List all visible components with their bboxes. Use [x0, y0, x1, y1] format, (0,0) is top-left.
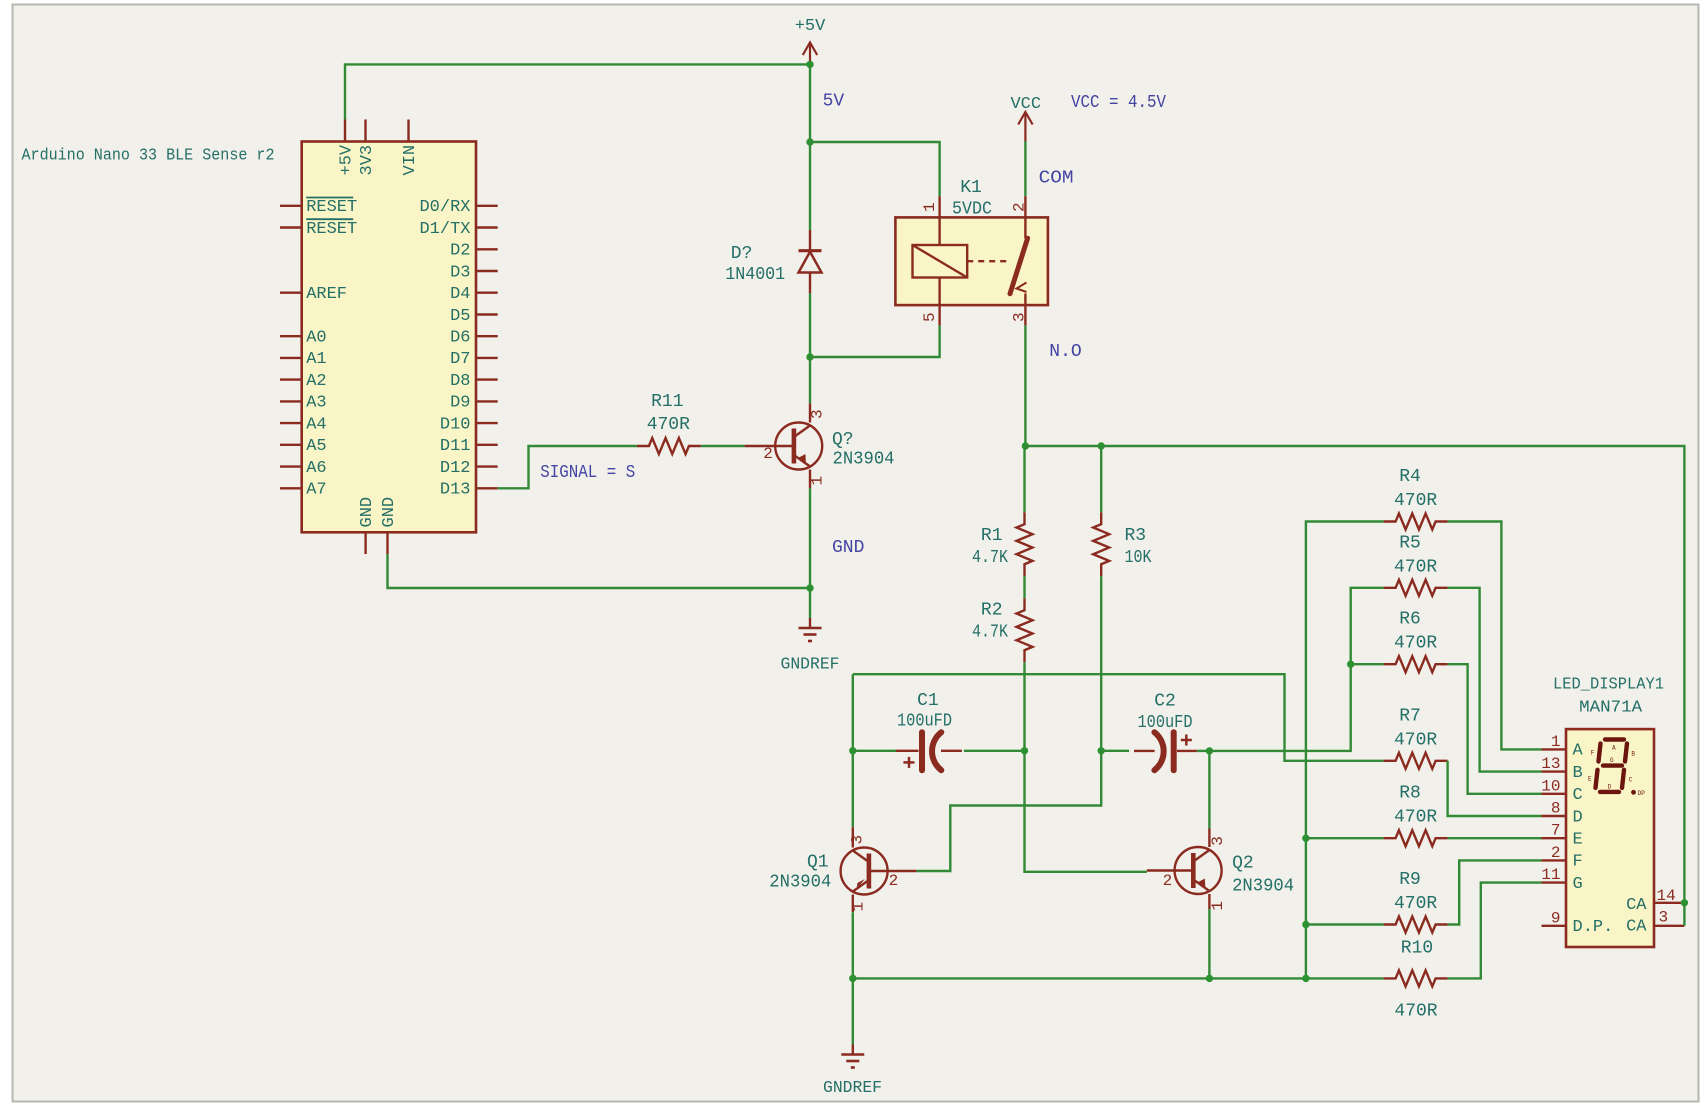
svg-text:GND: GND: [380, 497, 399, 528]
svg-text:COM: COM: [1039, 169, 1074, 189]
svg-text:470R: 470R: [1394, 634, 1437, 654]
svg-text:MAN71A: MAN71A: [1579, 699, 1643, 718]
svg-text:G: G: [1573, 875, 1583, 894]
svg-text:RESET: RESET: [306, 220, 357, 239]
wire Q? emitter to GND rail: [809, 488, 811, 588]
Q2 emitter pin 1: [1208, 894, 1210, 909]
resistor R2: [1017, 598, 1033, 662]
pin D2 (right): [476, 248, 498, 250]
svg-text:AREF: AREF: [306, 285, 347, 304]
svg-text:E: E: [1588, 776, 1592, 783]
wire bus to R8 left: [1306, 837, 1384, 839]
svg-text:3: 3: [1659, 909, 1669, 927]
svg-text:3: 3: [1209, 836, 1227, 846]
wire R5 to display pin B: [1448, 588, 1542, 772]
pin D8 (right): [476, 378, 498, 380]
display pin 3 (CA): [1654, 925, 1684, 927]
resistor R1: [1017, 512, 1033, 576]
pin A6 (left): [280, 465, 302, 467]
junction C1 right / R2 bottom: [1021, 747, 1028, 754]
display pin 9 (D.P.): [1542, 925, 1567, 927]
svg-text:D: D: [1573, 808, 1583, 827]
relay dashed actuator line: [967, 260, 1008, 262]
svg-text:D0/RX: D0/RX: [419, 198, 470, 217]
resistor R11: [637, 438, 701, 454]
pin D9 (right): [476, 400, 498, 402]
pin D11 (right): [476, 444, 498, 446]
wire D13 to R11: [498, 446, 637, 488]
power symbol +5V: [809, 44, 811, 65]
svg-text:GND: GND: [832, 538, 864, 558]
wire VCC to relay pin 2: [1024, 141, 1026, 196]
pin D12 (right): [476, 465, 498, 467]
display pin 1 (A): [1542, 748, 1567, 750]
svg-text:1N4001: 1N4001: [725, 265, 785, 285]
pin 3V3 (top): [364, 120, 366, 142]
svg-text:A6: A6: [306, 459, 326, 478]
relay pin 1: [938, 196, 940, 245]
Q? base pin 2: [745, 445, 794, 447]
junction bus meets emitter rail: [1302, 975, 1309, 982]
svg-text:A2: A2: [306, 372, 326, 391]
svg-text:R2: R2: [981, 601, 1003, 621]
Q1 emitter pin 1: [852, 895, 854, 913]
wire 5V node to diode D? cathode: [809, 142, 811, 230]
wire N.O to R3 top: [1025, 445, 1101, 447]
svg-text:3: 3: [849, 835, 867, 845]
svg-text:R11: R11: [651, 392, 683, 412]
pin D13 (right): [476, 487, 498, 489]
svg-text:DP: DP: [1638, 790, 1646, 797]
svg-text:Q2: Q2: [1232, 854, 1254, 874]
Arduino Nano 33 BLE Sense r2 module A1 body: [302, 142, 476, 533]
svg-text:Q1: Q1: [807, 853, 829, 873]
svg-text:K1: K1: [960, 178, 982, 198]
wire down to Q2 collector: [1208, 751, 1210, 829]
wire CA pins tied: [1683, 903, 1685, 926]
capacitor C2 100uFD: [1134, 750, 1155, 752]
svg-text:VCC: VCC: [1010, 95, 1041, 114]
pin VIN (top): [407, 120, 409, 142]
Q2 collector pin 3: [1208, 829, 1210, 848]
junction R3 top: [1098, 442, 1105, 449]
transistor Q2 2N3904: [1175, 847, 1222, 894]
junction 5V node: [806, 138, 813, 145]
pin A1 (left): [280, 357, 302, 359]
wire R3 top feed: [1100, 446, 1102, 512]
svg-text:2N3904: 2N3904: [833, 450, 895, 470]
wire C2 right plate to Q2 collector node: [1197, 750, 1210, 752]
power symbol VCC: [1024, 113, 1026, 141]
pin RESET (left): [280, 226, 302, 228]
svg-text:D13: D13: [440, 481, 471, 500]
svg-text:R10: R10: [1401, 939, 1433, 959]
svg-text:470R: 470R: [1394, 491, 1437, 511]
svg-text:A4: A4: [306, 415, 326, 434]
wire C1 right plate to node: [964, 750, 1025, 752]
relay K1 5VDC body: [895, 217, 1048, 305]
svg-text:R9: R9: [1399, 870, 1421, 890]
svg-text:10K: 10K: [1125, 548, 1152, 568]
svg-text:E: E: [1573, 831, 1583, 850]
svg-text:8: 8: [1551, 800, 1561, 818]
svg-text:R3: R3: [1125, 526, 1147, 546]
transistor Q? 2N3904: [775, 423, 822, 470]
svg-text:R5: R5: [1399, 533, 1421, 553]
pin GND (bottom): [386, 532, 388, 554]
svg-text:2N3904: 2N3904: [1232, 877, 1294, 897]
capacitor C1 100uFD: [896, 750, 919, 752]
pin A5 (left): [280, 444, 302, 446]
svg-text:1: 1: [1209, 901, 1227, 911]
svg-text:D?: D?: [731, 244, 753, 264]
resistor R5: [1384, 580, 1448, 596]
display pin 10 (C): [1542, 793, 1567, 795]
svg-text:D2: D2: [450, 242, 470, 261]
svg-text:A5: A5: [306, 437, 326, 456]
svg-text:10: 10: [1541, 777, 1560, 795]
Q2 base pin 2: [1147, 869, 1193, 871]
wire R8 to display pin E: [1448, 837, 1542, 839]
relay pin 3: [1024, 294, 1026, 326]
junction bus to R8: [1302, 835, 1309, 842]
svg-text:GNDREF: GNDREF: [781, 656, 840, 675]
pin A2 (left): [280, 378, 302, 380]
svg-text:D6: D6: [450, 329, 470, 348]
pin A7 (left): [280, 487, 302, 489]
wire 5V node to relay pin 1: [810, 142, 940, 196]
wire N.O to R1: [1023, 446, 1025, 512]
svg-text:A: A: [1573, 742, 1584, 761]
wire R10 to display pin G: [1448, 883, 1542, 979]
svg-text:A: A: [1612, 745, 1616, 752]
wire C2-left node to Q1 base: [916, 751, 1101, 871]
svg-text:D1/TX: D1/TX: [419, 220, 470, 239]
pin D3 (right): [476, 270, 498, 272]
svg-text:1: 1: [850, 902, 868, 912]
resistor R3: [1093, 512, 1109, 576]
svg-text:4.7K: 4.7K: [972, 623, 1008, 643]
svg-text:F: F: [1573, 853, 1583, 872]
svg-text:CA: CA: [1626, 918, 1647, 937]
wire +5V down to 5V node: [809, 64, 811, 142]
svg-text:R8: R8: [1399, 784, 1421, 804]
junction C2 left / R3 bottom: [1098, 747, 1105, 754]
svg-text:9: 9: [1551, 909, 1561, 927]
display pin 13 (B): [1542, 770, 1567, 772]
diode D? 1N4001: [809, 230, 811, 251]
svg-text:2: 2: [1551, 844, 1561, 862]
wire relay pin 3 down (N.O): [1024, 325, 1026, 446]
junction GND rail: [806, 584, 813, 591]
relay contact mark: [1017, 283, 1027, 293]
svg-text:A0: A0: [306, 329, 326, 348]
wire R4 to display pin A: [1448, 522, 1542, 750]
ground symbol GNDREF: [809, 588, 811, 618]
svg-text:D7: D7: [450, 350, 470, 369]
wire N.O rail to display CA: [1101, 446, 1684, 903]
Q1 collector pin 3: [852, 827, 854, 847]
svg-text:R6: R6: [1399, 610, 1421, 630]
pin A4 (left): [280, 422, 302, 424]
svg-text:D5: D5: [450, 307, 470, 326]
svg-text:2: 2: [763, 445, 773, 463]
wire tap to R6 left: [1351, 663, 1384, 665]
pin D6 (right): [476, 335, 498, 337]
svg-text:D4: D4: [450, 285, 470, 304]
svg-text:470R: 470R: [1394, 1002, 1437, 1022]
svg-text:CA: CA: [1626, 896, 1647, 915]
pin D4 (right): [476, 292, 498, 294]
svg-text:VIN: VIN: [401, 145, 420, 176]
junction N.O / R1 top: [1022, 442, 1029, 449]
resistor R7: [1384, 753, 1448, 769]
svg-text:+5V: +5V: [337, 144, 356, 175]
wire R4 left / ground bus vertical: [1306, 522, 1384, 979]
svg-text:A1: A1: [306, 350, 326, 369]
junction bus to R9: [1302, 921, 1309, 928]
display pin 8 (D): [1542, 815, 1567, 817]
wire R7 to display pin D: [1448, 761, 1542, 816]
junction C2 right / Q2 collector: [1206, 747, 1213, 754]
junction Q1 collector / C1 left: [849, 747, 856, 754]
svg-text:+5V: +5V: [795, 17, 826, 36]
wire R6 to display pin C: [1448, 664, 1542, 794]
pin A3 (left): [280, 400, 302, 402]
svg-text:Arduino Nano 33 BLE Sense r2: Arduino Nano 33 BLE Sense r2: [22, 147, 275, 166]
pin GND (bottom): [364, 532, 366, 554]
svg-text:C: C: [1629, 776, 1633, 783]
display pin 14 (CA): [1654, 902, 1684, 904]
Q? emitter pin 1: [809, 470, 811, 489]
pin +5V (top): [344, 120, 346, 142]
pin D7 (right): [476, 357, 498, 359]
svg-text:13: 13: [1541, 755, 1560, 773]
wire to C2 left plate: [1101, 750, 1129, 752]
svg-text:470R: 470R: [647, 415, 690, 435]
wire Q1 collector rail to R7: [853, 674, 1384, 761]
svg-text:GND: GND: [358, 497, 377, 528]
svg-text:100uFD: 100uFD: [897, 712, 952, 732]
relay pin 5: [938, 278, 940, 326]
svg-text:5: 5: [921, 312, 939, 322]
svg-text:D10: D10: [440, 415, 471, 434]
svg-text:Q?: Q?: [832, 430, 854, 450]
display pin 2 (F): [1542, 859, 1567, 861]
wire Q1 collector vertical: [852, 674, 854, 827]
svg-text:D3: D3: [450, 263, 470, 282]
svg-text:5V: 5V: [823, 92, 845, 112]
svg-text:5VDC: 5VDC: [952, 200, 992, 220]
svg-text:D9: D9: [450, 394, 470, 413]
svg-text:B: B: [1573, 764, 1583, 783]
resistor R4: [1384, 514, 1448, 530]
wire diode anode to collector node: [809, 293, 811, 357]
wire R5 left to Q2 collector node: [1209, 588, 1383, 751]
7-segment display LED_DISPLAY1 MAN71A body: [1566, 729, 1654, 947]
svg-text:3: 3: [1011, 312, 1029, 322]
svg-text:3V3: 3V3: [358, 145, 377, 176]
svg-text:B: B: [1631, 750, 1635, 757]
resistor R10: [1384, 970, 1448, 986]
junction +5V rail: [806, 61, 813, 68]
svg-text:470R: 470R: [1394, 808, 1437, 828]
wire C1-right node to Q2 base: [1025, 751, 1147, 872]
relay pin 2: [1024, 196, 1026, 238]
wire Q1 emitter down: [852, 912, 854, 978]
wire Arduino GND to GND rail: [388, 554, 811, 588]
resistor R9: [1384, 917, 1448, 933]
svg-text:D: D: [1608, 784, 1612, 791]
wire Q2 emitter down: [1208, 909, 1210, 978]
ground symbol GNDREF (bottom): [852, 978, 854, 1044]
pin D10 (right): [476, 422, 498, 424]
pin RESET (left): [280, 205, 302, 207]
svg-text:LED_DISPLAY1: LED_DISPLAY1: [1553, 676, 1664, 695]
svg-text:RESET: RESET: [306, 198, 357, 217]
junction Q2 emitter rail: [1206, 975, 1213, 982]
svg-text:11: 11: [1541, 866, 1560, 884]
svg-text:R7: R7: [1399, 706, 1421, 726]
svg-text:N.O: N.O: [1049, 342, 1081, 362]
svg-text:D11: D11: [440, 437, 471, 456]
wire collector node to relay pin 5: [810, 325, 940, 357]
svg-text:4.7K: 4.7K: [972, 548, 1008, 568]
svg-text:470R: 470R: [1394, 557, 1437, 577]
svg-text:14: 14: [1657, 887, 1676, 905]
svg-text:GNDREF: GNDREF: [823, 1079, 882, 1098]
wire collector node down to Q? collector: [809, 357, 811, 403]
display pin 11 (G): [1542, 881, 1567, 883]
svg-text:1: 1: [1551, 733, 1561, 751]
svg-text:C2: C2: [1154, 691, 1176, 711]
svg-text:2N3904: 2N3904: [769, 873, 831, 893]
pin D1/TX (right): [476, 226, 498, 228]
svg-text:3: 3: [809, 409, 827, 419]
svg-text:100uFD: 100uFD: [1138, 713, 1193, 733]
junction emitter rail left: [849, 975, 856, 982]
wire to C1 left plate: [853, 750, 896, 752]
wire bus to R9 left: [1306, 923, 1384, 925]
Q1 base pin 2: [869, 870, 917, 872]
svg-text:A7: A7: [306, 481, 326, 500]
svg-text:F: F: [1591, 750, 1595, 757]
relay switch blade: [1010, 238, 1028, 294]
svg-text:1: 1: [921, 202, 939, 212]
svg-text:VCC = 4.5V: VCC = 4.5V: [1071, 93, 1166, 113]
svg-text:2: 2: [1163, 872, 1173, 890]
junction collector node: [806, 353, 813, 360]
wire R9 to display pin F: [1448, 860, 1542, 924]
svg-text:G: G: [1610, 757, 1614, 764]
wire R3 bottom to C2 left node: [1100, 576, 1102, 751]
7-segment digit graphic: [1605, 737, 1624, 741]
pin D0/RX (right): [476, 205, 498, 207]
svg-text:7: 7: [1551, 822, 1561, 840]
wire R11 to Q? base: [701, 445, 745, 447]
resistor R6: [1384, 656, 1448, 672]
transistor Q1 2N3904: [841, 848, 888, 895]
pin A0 (left): [280, 335, 302, 337]
svg-text:R4: R4: [1399, 467, 1421, 487]
svg-text:2: 2: [1011, 202, 1029, 212]
svg-text:SIGNAL = S: SIGNAL = S: [540, 463, 635, 483]
svg-text:470R: 470R: [1394, 730, 1437, 750]
svg-text:1: 1: [809, 476, 827, 486]
junction R6 tap: [1347, 661, 1354, 668]
wire bottom rail to R10: [853, 977, 1384, 979]
svg-text:D12: D12: [440, 459, 471, 478]
pin D5 (right): [476, 313, 498, 315]
svg-text:R1: R1: [981, 526, 1003, 546]
svg-text:A3: A3: [306, 394, 326, 413]
wire +5V pin to +5V rail: [345, 64, 810, 119]
svg-text:C: C: [1573, 786, 1583, 805]
svg-text:470R: 470R: [1394, 894, 1437, 914]
pin AREF (left): [280, 292, 302, 294]
junction CA common: [1681, 899, 1688, 906]
relay coil: [913, 245, 968, 278]
svg-text:D.P.: D.P.: [1573, 918, 1614, 937]
svg-text:D8: D8: [450, 372, 470, 391]
display pin 7 (E): [1542, 837, 1567, 839]
Q? collector pin 3: [809, 403, 811, 422]
wire R2 to C1 right node: [1023, 662, 1025, 751]
svg-text:2: 2: [889, 872, 899, 890]
svg-text:C1: C1: [917, 691, 939, 711]
resistor R8: [1384, 830, 1448, 846]
wire R1 to R2: [1023, 576, 1025, 598]
